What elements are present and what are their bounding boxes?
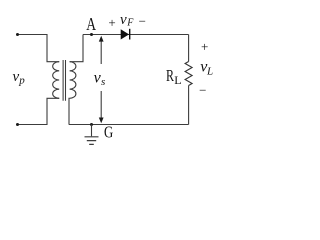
node G junction dot xyxy=(90,123,93,126)
resistor RL xyxy=(185,62,192,86)
svg-text:A: A xyxy=(86,14,96,34)
node primary bottom terminal dot xyxy=(16,123,19,126)
transformer T1 core xyxy=(63,60,65,101)
arrow vs (lower segment with down arrowhead) xyxy=(100,91,102,118)
ground xyxy=(91,125,93,137)
svg-text:v: v xyxy=(120,12,127,28)
svg-text:−: − xyxy=(199,83,206,98)
wire secondary bottom lead xyxy=(68,98,71,124)
arrow vs (upper segment with up arrowhead) xyxy=(100,41,102,65)
svg-text:R: R xyxy=(166,66,174,85)
node primary top terminal dot xyxy=(16,33,19,36)
svg-text:p: p xyxy=(18,74,25,86)
wire top from secondary to right corner xyxy=(83,34,189,36)
wire bottom from right corner to secondary xyxy=(69,124,189,126)
transformer T1 primary winding xyxy=(53,62,60,99)
wire primary top lead xyxy=(18,35,60,62)
node A junction dot xyxy=(90,33,93,36)
svg-text:L: L xyxy=(206,65,213,77)
wire secondary top lead to node A xyxy=(70,35,83,62)
wire primary bottom lead xyxy=(18,98,60,124)
svg-text:−: − xyxy=(139,14,146,29)
diode D1 xyxy=(121,30,129,39)
svg-text:+: + xyxy=(108,15,115,30)
svg-text:G: G xyxy=(104,123,113,142)
svg-text:s: s xyxy=(101,76,105,88)
svg-text:+: + xyxy=(201,39,208,54)
wire right side top xyxy=(188,35,190,62)
svg-text:L: L xyxy=(174,73,181,87)
transformer T1 secondary winding xyxy=(70,62,76,99)
svg-text:F: F xyxy=(126,18,134,29)
wire right side bottom xyxy=(188,86,190,125)
